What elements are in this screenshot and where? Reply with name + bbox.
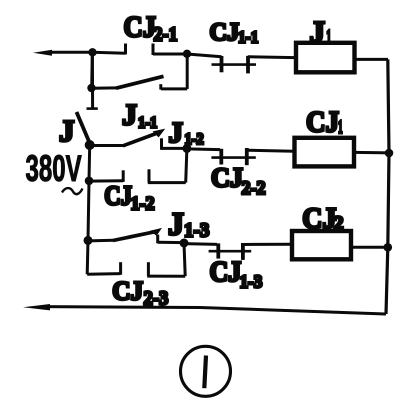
svg-text:1-3: 1-3 [240, 271, 263, 292]
node: junction top wire / row-1 parallel branch riser [183, 50, 191, 58]
label CJ1-2 [104, 182, 154, 215]
wire: CJ2 coil to right bus [351, 246, 388, 249]
svg-text:J: J [59, 113, 75, 148]
contact CJ1-2 [89, 148, 187, 182]
wire: left bus upper segment [90, 52, 94, 88]
svg-text:CJ: CJ [210, 256, 242, 287]
wire: top feeder with left arrow [33, 50, 126, 56]
svg-text:1: 1 [326, 27, 331, 49]
switch J blade [77, 112, 91, 145]
svg-text:CJ: CJ [210, 19, 240, 46]
contact J1-3 (blade) [88, 228, 162, 241]
wire: top node to CJ1-1 contact [187, 54, 222, 57]
label CJ1-3 [210, 256, 263, 291]
label CJ2 [302, 202, 343, 235]
label CJ2-2 [211, 162, 266, 199]
svg-text:1-1: 1-1 [238, 29, 258, 47]
label J1-3 [168, 205, 210, 241]
wire: CJ1 coil to right bus [354, 151, 389, 155]
svg-text:J: J [122, 99, 137, 132]
svg-text:CJ: CJ [302, 202, 336, 235]
node: junction row-3 / CJ2-3 branch riser [180, 239, 189, 248]
contact J1-2 fixed hook [162, 138, 188, 150]
wire: right bus [386, 59, 389, 314]
contactor coil CJ2 [292, 231, 351, 259]
svg-text:1-1: 1-1 [138, 114, 157, 132]
node: junction CJ2 output / right bus [384, 243, 393, 252]
wire: node to CJ1-3 contact [184, 242, 217, 246]
svg-text:CJ: CJ [306, 106, 339, 139]
relay coil J1 [296, 43, 355, 73]
contact CJ1-3 (bridging contact) [209, 243, 252, 260]
wire: left bus to switch J terminal [91, 52, 94, 108]
ac symbol ~ [62, 188, 83, 194]
contact J1-1 (blade) [90, 129, 166, 146]
svg-text:CJ: CJ [112, 276, 143, 305]
figure number circle 1 [181, 346, 231, 396]
svg-text:CJ: CJ [211, 162, 243, 192]
contact CJ1-1 (bridging contact) [212, 56, 257, 74]
label J1-2 [169, 117, 204, 149]
label 380V [26, 148, 82, 190]
svg-text:CJ: CJ [104, 182, 132, 211]
label CJ2-3 [112, 276, 168, 310]
svg-text:J: J [168, 205, 184, 241]
contact CJ2-2 (bridging contact) [211, 148, 255, 165]
wire: node to CJ2-2 contact [187, 147, 220, 151]
label CJ2-1 [124, 11, 178, 46]
svg-text:CJ: CJ [124, 11, 156, 44]
svg-text:2-2: 2-2 [242, 178, 266, 200]
svg-text:J: J [169, 117, 184, 149]
label CJ1 [306, 106, 343, 139]
svg-text:1: 1 [338, 118, 343, 138]
svg-text:380V: 380V [26, 148, 82, 190]
node: junction left bus / CJ1-2 branch [85, 177, 94, 186]
contact CJ2-1 (break in top wire) [126, 44, 188, 56]
svg-text:1-2: 1-2 [131, 193, 155, 215]
node: junction left bus / row-1 parallel branch [87, 84, 95, 92]
node: junction switch J / row-2 branch [85, 140, 95, 150]
wire: CJ1-1 to relay coil J1 [248, 55, 295, 59]
node: junction of feeder and left bus [88, 48, 96, 56]
label CJ1-1 [210, 19, 259, 47]
contactor coil CJ1 [295, 138, 355, 167]
wire: bottom return with left arrow [23, 304, 386, 314]
wire: CJ2-2 to contactor coil CJ1 [247, 150, 294, 151]
node: junction CJ1 output / right bus [385, 149, 394, 158]
svg-text:2: 2 [334, 213, 344, 235]
svg-text:J: J [310, 14, 326, 49]
node: junction left bus / row-3 branch [84, 236, 93, 245]
svg-text:2-1: 2-1 [154, 24, 178, 46]
contact (row-1 parallel latching blade) [92, 54, 188, 90]
contact J1-3 fixed hook [158, 235, 184, 244]
label J1 [310, 14, 332, 49]
svg-text:1-3: 1-3 [184, 220, 210, 242]
contact CJ2-3 [87, 240, 185, 276]
wire: left bus row2-row3 segment [88, 145, 92, 181]
label J1-1 [122, 99, 157, 132]
wire: J1 coil to right bus [355, 58, 388, 61]
wire: left bus row3 segment [88, 181, 89, 241]
node: junction row-2 / CJ1-2 branch riser [182, 144, 191, 153]
terminal bar of switch J [87, 107, 98, 110]
wire: CJ1-3 to contactor coil CJ2 [243, 243, 292, 246]
